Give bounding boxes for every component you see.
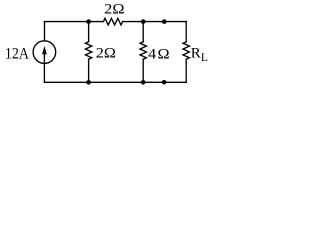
node a junction dot top [162, 19, 167, 24]
svg-text:4 Ω: 4 Ω [148, 46, 170, 62]
resistor R3 4ohm: top lead [142, 22, 144, 42]
resistor R2 2ohm horizontal zigzag [103, 18, 122, 25]
node b junction dot bottom [162, 80, 167, 85]
wire top right segment [123, 21, 187, 23]
resistor R1 2ohm vertical zigzag [85, 42, 91, 59]
node junction dot top at R3 [141, 19, 146, 24]
svg-text:RL: RL [191, 46, 208, 64]
node junction dot bottom at R3 [141, 80, 146, 85]
node junction dot top at R1 [86, 19, 91, 24]
current source I1 circle [33, 41, 56, 64]
wire top left segment [45, 21, 104, 23]
resistor R3 bottom lead [142, 59, 144, 82]
resistor RL: top lead (right edge) [185, 22, 187, 42]
current source arrow head [42, 46, 47, 54]
svg-text:12A: 12A [5, 46, 29, 63]
wire bottom [45, 81, 187, 83]
resistor R1 bottom lead [88, 59, 90, 82]
node junction dot bottom at R1 [86, 80, 91, 85]
wire left top (source to top wire) [44, 22, 46, 41]
svg-text:2Ω: 2Ω [104, 2, 124, 18]
resistor R3 4ohm zigzag [140, 42, 146, 59]
resistor R1 2ohm vertical: top lead [88, 22, 90, 42]
resistor RL bottom lead [185, 59, 187, 82]
resistor RL zigzag [183, 42, 189, 59]
svg-text:2Ω: 2Ω [96, 46, 116, 62]
current source arrow shaft and wire left bottom [43, 54, 45, 82]
